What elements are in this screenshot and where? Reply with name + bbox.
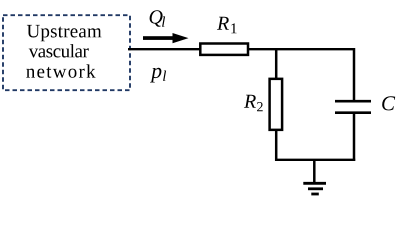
bottom rail wire <box>275 159 355 161</box>
label Q_l <box>150 10 166 27</box>
wire: capacitor branch down <box>353 48 356 101</box>
resistor R2 <box>270 79 283 130</box>
flow arrow <box>143 33 189 43</box>
wire: junction down to R2 <box>275 48 278 79</box>
box text "Upstream" <box>27 25 102 41</box>
wire: capacitor to bottom rail <box>353 114 356 161</box>
wire: R2 bottom to bottom rail <box>275 130 278 161</box>
label R2 <box>244 95 263 112</box>
box text "vascular" <box>29 44 89 57</box>
label C <box>382 96 395 110</box>
ground <box>303 159 326 194</box>
upstream vascular network box <box>3 15 130 90</box>
capacitor C bottom plate <box>335 111 371 114</box>
resistor R1 <box>200 44 248 55</box>
wire: box to R1 <box>128 48 200 50</box>
capacitor C top plate <box>335 100 371 103</box>
box text "network" <box>26 64 95 77</box>
wire: R1 to top-right corner <box>249 48 355 50</box>
label R1 <box>217 17 237 34</box>
label p_l <box>150 68 166 83</box>
